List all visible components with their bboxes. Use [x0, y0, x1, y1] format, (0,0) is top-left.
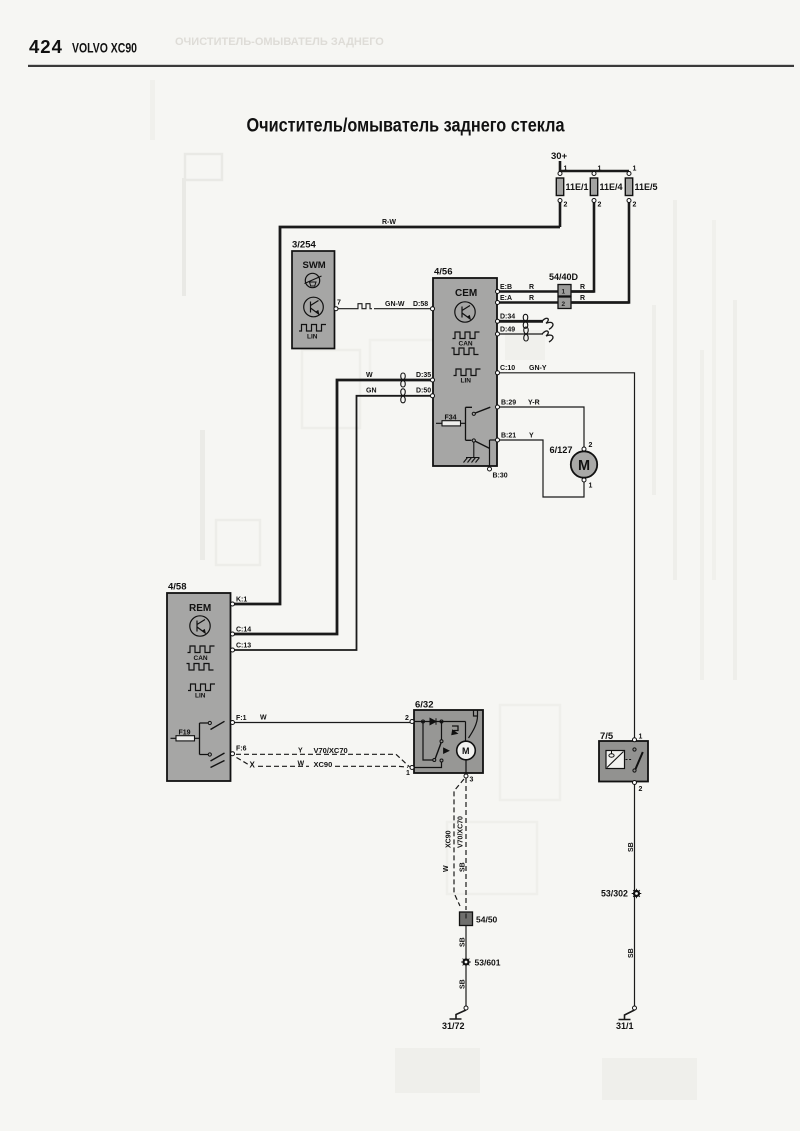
svg-text:1: 1 — [406, 770, 410, 777]
svg-text:VOLVO XC90: VOLVO XC90 — [72, 40, 137, 56]
svg-text:E:B: E:B — [500, 284, 512, 291]
svg-text:W: W — [366, 372, 373, 379]
svg-text:7: 7 — [337, 300, 341, 307]
svg-text:11E/4: 11E/4 — [600, 182, 623, 192]
svg-text:V70/XC70: V70/XC70 — [458, 816, 465, 848]
svg-text:GN-Y: GN-Y — [529, 365, 547, 372]
svg-text:SB: SB — [628, 842, 635, 852]
svg-text:F34: F34 — [445, 415, 457, 422]
svg-text:LIN: LIN — [307, 334, 318, 341]
svg-text:R: R — [529, 295, 534, 302]
svg-text:2: 2 — [598, 202, 602, 209]
svg-text:C:14: C:14 — [236, 627, 251, 634]
svg-text:D:49: D:49 — [500, 327, 515, 334]
svg-text:W: W — [260, 715, 267, 722]
svg-text:F19: F19 — [179, 730, 191, 737]
svg-text:1: 1 — [639, 734, 643, 741]
svg-text:CAN: CAN — [194, 655, 208, 662]
svg-text:K:1: K:1 — [236, 597, 247, 604]
svg-text:XC90: XC90 — [446, 830, 453, 848]
svg-text:M: M — [462, 746, 470, 756]
svg-text:Y: Y — [529, 433, 534, 440]
svg-text:CEM: CEM — [455, 288, 477, 299]
svg-text:6/32: 6/32 — [415, 700, 434, 711]
svg-text:424: 424 — [29, 36, 63, 57]
svg-text:D:34: D:34 — [500, 314, 515, 321]
svg-text:53/302: 53/302 — [601, 889, 628, 899]
svg-text:LIN: LIN — [461, 378, 472, 385]
svg-text:31/1: 31/1 — [616, 1021, 634, 1031]
svg-text:B:30: B:30 — [493, 473, 508, 480]
svg-text:1: 1 — [589, 483, 593, 490]
svg-text:1: 1 — [633, 166, 637, 173]
svg-text:W: W — [443, 865, 450, 872]
svg-text:2: 2 — [639, 786, 643, 793]
svg-text:C:10: C:10 — [500, 365, 515, 372]
svg-text:XC90: XC90 — [314, 760, 333, 769]
svg-text:ОЧИСТИТЕЛЬ-ОМЫВАТЕЛЬ ЗАДНЕГО: ОЧИСТИТЕЛЬ-ОМЫВАТЕЛЬ ЗАДНЕГО — [175, 36, 384, 48]
svg-text:2: 2 — [405, 715, 409, 722]
svg-text:Y-R: Y-R — [528, 400, 540, 407]
svg-text:SB: SB — [460, 862, 467, 872]
svg-text:D:58: D:58 — [413, 301, 428, 308]
svg-text:4/58: 4/58 — [168, 582, 187, 593]
svg-text:11E/5: 11E/5 — [635, 182, 658, 192]
svg-text:R: R — [580, 284, 585, 291]
svg-text:2: 2 — [633, 202, 637, 209]
svg-text:E:A: E:A — [500, 295, 512, 302]
svg-text:31/72: 31/72 — [442, 1021, 465, 1031]
svg-text:REM: REM — [189, 603, 211, 614]
svg-text:11E/1: 11E/1 — [566, 182, 589, 192]
svg-text:54/40D: 54/40D — [549, 272, 579, 282]
svg-text:2: 2 — [589, 442, 593, 449]
svg-text:D:50: D:50 — [416, 388, 431, 395]
svg-text:54/50: 54/50 — [476, 915, 498, 925]
svg-text:SB: SB — [460, 937, 467, 947]
svg-text:1: 1 — [562, 289, 566, 296]
svg-text:4/56: 4/56 — [434, 267, 453, 278]
svg-text:1: 1 — [564, 166, 568, 173]
svg-text:2: 2 — [564, 202, 568, 209]
svg-text:Y: Y — [298, 748, 303, 755]
svg-text:6/127: 6/127 — [550, 445, 573, 455]
svg-text:B:21: B:21 — [501, 433, 516, 440]
svg-text:SWM: SWM — [303, 260, 326, 271]
svg-text:F:6: F:6 — [236, 746, 247, 753]
svg-text:GN: GN — [366, 388, 377, 395]
svg-text:SB: SB — [628, 948, 635, 958]
svg-text:R-W: R-W — [382, 219, 396, 226]
svg-text:M: M — [578, 458, 590, 474]
svg-text:SB: SB — [460, 979, 467, 989]
svg-text:2: 2 — [562, 301, 566, 308]
svg-text:Очиститель/омыватель заднего с: Очиститель/омыватель заднего стекла — [247, 116, 565, 137]
svg-text:X: X — [250, 761, 256, 770]
svg-text:30+: 30+ — [551, 151, 568, 162]
svg-text:3/254: 3/254 — [292, 240, 316, 251]
svg-text:3: 3 — [470, 777, 474, 784]
svg-text:LIN: LIN — [195, 693, 206, 700]
svg-text:W: W — [298, 760, 305, 767]
svg-text:B:29: B:29 — [501, 400, 516, 407]
svg-text:CAN: CAN — [459, 341, 473, 348]
svg-text:R: R — [529, 284, 534, 291]
svg-text:C:13: C:13 — [236, 643, 251, 650]
svg-text:V70/XC70: V70/XC70 — [314, 746, 348, 755]
svg-text:GN-W: GN-W — [385, 301, 405, 308]
svg-text:F:1: F:1 — [236, 715, 247, 722]
svg-text:D:35: D:35 — [416, 372, 431, 379]
svg-text:53/601: 53/601 — [475, 958, 501, 968]
svg-text:7/5: 7/5 — [600, 731, 614, 742]
svg-text:R: R — [580, 295, 585, 302]
svg-text:1: 1 — [598, 166, 602, 173]
